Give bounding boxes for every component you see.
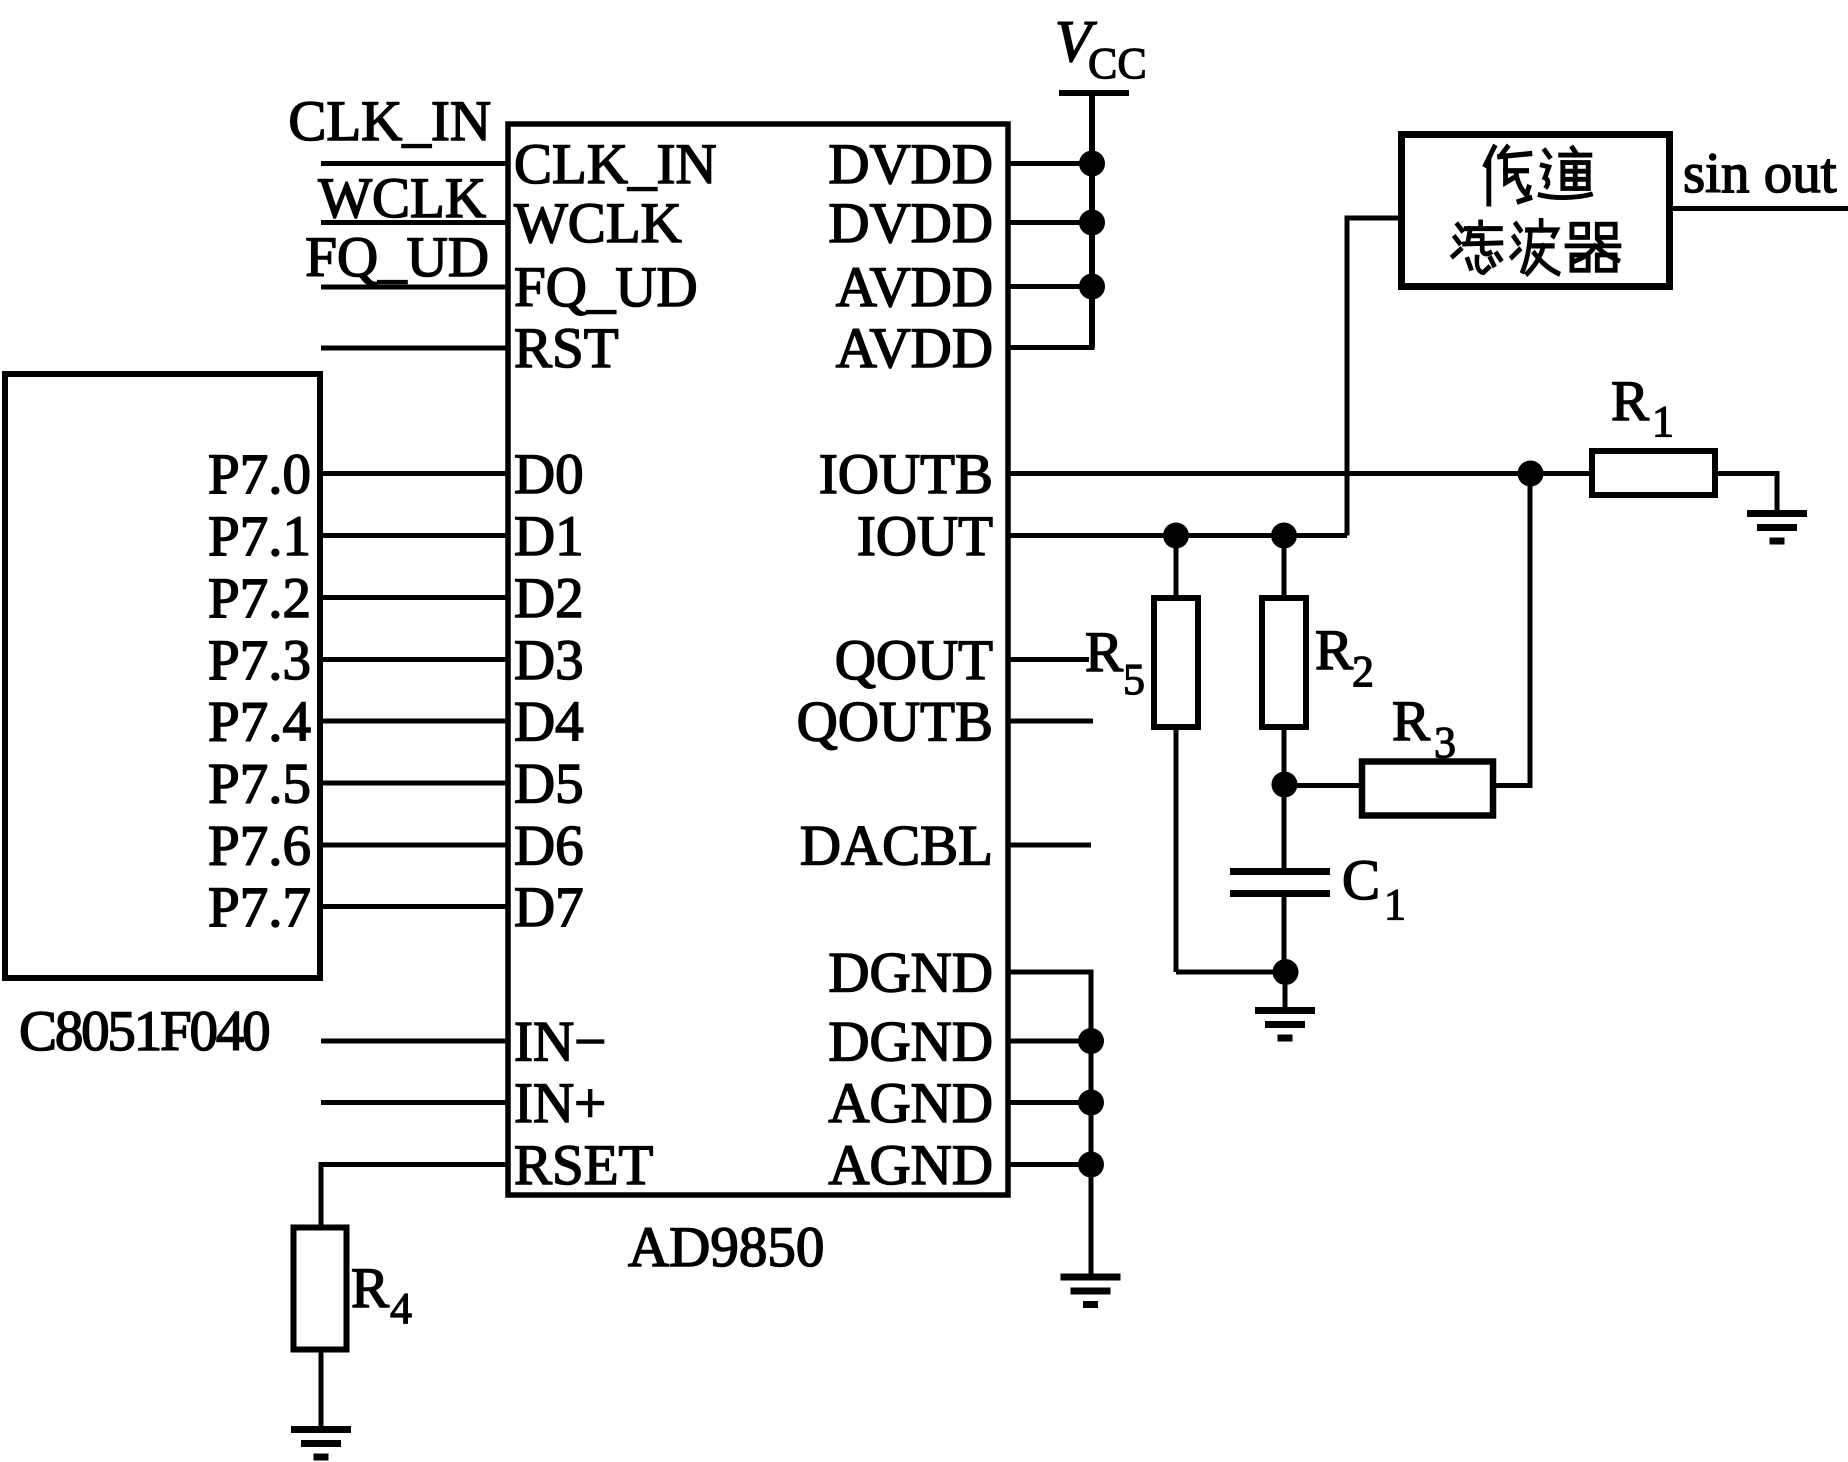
wire IN+ [321, 1100, 508, 1105]
svg-text:P7.3: P7.3 [208, 629, 311, 692]
svg-text:AVDD: AVDD [836, 317, 993, 380]
svg-text:RST: RST [514, 317, 619, 380]
svg-text:P7.7: P7.7 [208, 876, 311, 939]
wire RSET [321, 1162, 508, 1167]
resistor R1 [1592, 451, 1715, 495]
wire WCLK external [321, 220, 508, 225]
wire R1 to ground corner [1715, 474, 1777, 513]
junction dot DVDD1 [1079, 151, 1105, 177]
wire AVDD1 [1008, 284, 1092, 289]
ground G2 [1255, 1007, 1315, 1042]
wire IN- [321, 1039, 508, 1044]
ground G3 [1061, 1274, 1121, 1309]
wire D0 [323, 471, 508, 476]
resistor R2 [1282, 536, 1287, 599]
svg-text:D7: D7 [514, 876, 584, 939]
svg-text:DVDD: DVDD [828, 192, 993, 255]
svg-text:P7.0: P7.0 [208, 443, 311, 506]
junction dot C1-gnd node [1273, 959, 1299, 985]
svg-text:FQ_UD: FQ_UD [305, 226, 489, 289]
svg-text:IN−: IN− [514, 1011, 606, 1074]
junction dot AVDD1 [1079, 274, 1105, 300]
svg-text:DACBL: DACBL [800, 815, 993, 878]
svg-text:AGND: AGND [828, 1134, 993, 1197]
svg-text:CLK_IN: CLK_IN [514, 133, 717, 196]
wire D2 [323, 595, 508, 600]
resistor R4 [294, 1228, 347, 1350]
wire AGND2 [1008, 1162, 1091, 1167]
wire node to ground G2 [1283, 972, 1288, 1007]
svg-text:C8051F040: C8051F040 [19, 1000, 269, 1063]
wire IOUT riser to filter [1347, 218, 1401, 536]
svg-text:3: 3 [1434, 718, 1456, 767]
svg-text:5: 5 [1123, 655, 1145, 704]
svg-text:P7.2: P7.2 [208, 567, 311, 630]
junction dot R2-R3-C1 [1272, 772, 1298, 798]
wire R4 to ground [319, 1353, 324, 1428]
IC U2 C8051F040 box [5, 374, 320, 978]
svg-text:P7.4: P7.4 [208, 691, 311, 754]
wire DGND2 [1008, 1039, 1091, 1044]
wire D7 [323, 904, 508, 909]
svg-text:R: R [1611, 370, 1649, 433]
power Vcc bar [1059, 90, 1129, 96]
svg-text:IOUT: IOUT [857, 505, 993, 568]
junction dot DVDD2 [1079, 210, 1105, 236]
svg-text:AGND: AGND [828, 1072, 993, 1135]
wire R3 right riser [1493, 474, 1530, 786]
svg-text:R: R [1085, 621, 1123, 684]
wire RSET vertical to R4 [319, 1162, 324, 1225]
junction dot IOUT-R2 [1271, 523, 1297, 549]
svg-text:R: R [351, 1257, 389, 1320]
svg-text:1: 1 [1652, 397, 1674, 446]
wire node to R3 [1285, 783, 1363, 788]
IC U1 AD9850 box [508, 124, 1008, 1195]
filter box 低通滤波器 [1402, 135, 1670, 287]
svg-text:4: 4 [390, 1284, 412, 1333]
svg-text:CLK_IN: CLK_IN [288, 90, 491, 153]
wire filter output [1673, 206, 1848, 211]
svg-text:D3: D3 [514, 629, 584, 692]
wire CLK_IN external [321, 161, 508, 166]
wire D5 [323, 781, 508, 786]
wire AVDD2 [1008, 345, 1095, 350]
svg-text:D0: D0 [514, 443, 584, 506]
junction dot IOUTB node [1518, 461, 1544, 487]
filter label char 器 [1567, 224, 1619, 270]
wire R5 bottom link [1176, 970, 1286, 975]
svg-text:DGND: DGND [828, 942, 993, 1005]
wire IOUTB row [1008, 471, 1592, 476]
svg-text:D5: D5 [514, 753, 584, 816]
svg-text:D4: D4 [514, 691, 584, 754]
svg-text:P7.6: P7.6 [208, 815, 311, 878]
svg-text:sin out: sin out [1683, 142, 1837, 205]
wire QOUTB stub [1008, 719, 1093, 724]
filter label char 滤 [1453, 222, 1501, 273]
svg-text:R: R [1392, 690, 1430, 753]
capacitor C1 [1282, 785, 1287, 869]
junction dot AGND2 [1078, 1152, 1104, 1178]
wire D6 [323, 843, 508, 848]
svg-text:D1: D1 [514, 505, 584, 568]
junction dot AGND1 [1078, 1090, 1104, 1116]
svg-text:AD9850: AD9850 [628, 1216, 824, 1279]
filter label char 通 [1540, 148, 1590, 198]
wire DGND1 corner [1008, 972, 1091, 1274]
wire IOUT row [1008, 533, 1347, 538]
svg-text:DGND: DGND [828, 1011, 993, 1074]
ground G1 [1747, 510, 1807, 545]
svg-text:D6: D6 [514, 815, 584, 878]
wire FQ_UD external [321, 285, 508, 290]
wire DVDD2 [1008, 220, 1092, 225]
svg-text:IOUTB: IOUTB [819, 443, 993, 506]
svg-text:P7.1: P7.1 [208, 505, 311, 568]
svg-text:R: R [1315, 619, 1353, 682]
svg-text:QOUTB: QOUTB [797, 691, 993, 754]
junction dot IOUT-R5 [1163, 523, 1189, 549]
svg-text:FQ_UD: FQ_UD [514, 256, 698, 319]
wire Vcc stem [1089, 93, 1095, 348]
svg-text:DVDD: DVDD [828, 133, 993, 196]
svg-text:1: 1 [1384, 880, 1406, 929]
filter label char 低 [1486, 147, 1530, 204]
wire D3 [323, 657, 508, 662]
wire AGND1 [1008, 1100, 1091, 1105]
svg-text:C: C [1342, 849, 1380, 912]
svg-text:D2: D2 [514, 567, 584, 630]
svg-text:P7.5: P7.5 [208, 753, 311, 816]
svg-text:2: 2 [1352, 647, 1374, 696]
svg-text:CC: CC [1088, 39, 1147, 88]
svg-text:QOUT: QOUT [835, 629, 993, 692]
junction dot DGND2 [1078, 1028, 1104, 1054]
wire DACBL stub [1008, 843, 1091, 848]
resistor R3 [1362, 762, 1493, 816]
wire QOUT stub [1008, 657, 1089, 662]
resistor R5 [1174, 536, 1179, 599]
ground G4 [291, 1426, 351, 1461]
svg-text:IN+: IN+ [514, 1072, 606, 1135]
svg-text:WCLK: WCLK [318, 167, 486, 230]
svg-text:RSET: RSET [514, 1134, 653, 1197]
wire D1 [323, 533, 508, 538]
filter label char 波 [1512, 221, 1558, 274]
wire RST external [321, 346, 508, 351]
wire DVDD1 [1008, 161, 1092, 166]
svg-text:WCLK: WCLK [514, 192, 682, 255]
wire D4 [323, 719, 508, 724]
svg-text:AVDD: AVDD [836, 256, 993, 319]
